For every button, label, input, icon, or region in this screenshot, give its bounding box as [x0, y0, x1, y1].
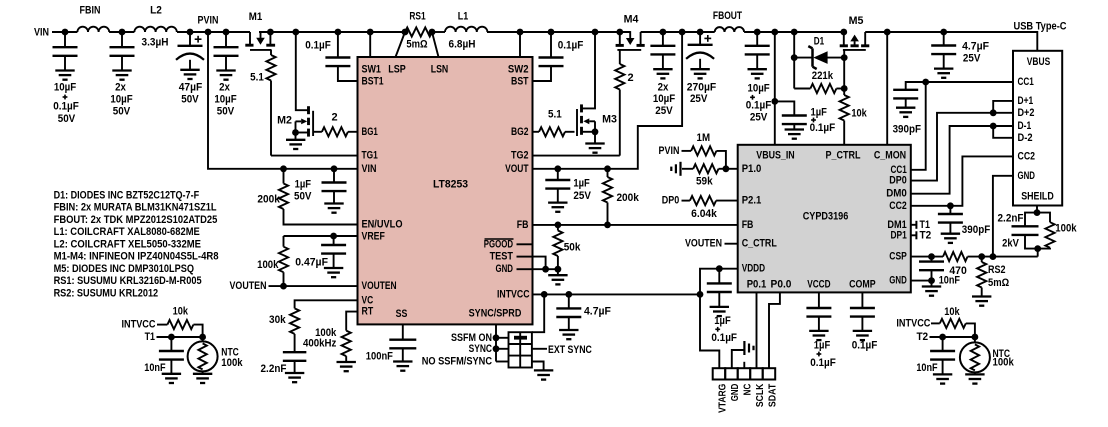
inductor L2 3.3uH — [134, 27, 176, 32]
wire D-2 — [993, 126, 1013, 138]
svg-text:CC2: CC2 — [889, 200, 907, 212]
svg-text:FBOUT: FBOUT — [713, 10, 742, 22]
junction LSN on rail — [429, 29, 436, 36]
junction CC2 390pF — [947, 202, 954, 209]
svg-text:GND: GND — [496, 263, 514, 275]
svg-text:200k: 200k — [616, 192, 639, 204]
ground CYPD GND — [931, 281, 933, 287]
svg-text:T2: T2 — [920, 229, 932, 241]
wire CC2 to USB — [911, 156, 1013, 205]
junction PVIN node — [205, 29, 212, 36]
svg-text:10k: 10k — [173, 306, 189, 318]
resistor 10k P_CTRL — [843, 58, 845, 95]
wire VDDD — [700, 269, 738, 295]
wire TG1 — [271, 155, 358, 157]
svg-text:M5: M5 — [849, 15, 864, 27]
svg-text:D+1: D+1 — [1018, 95, 1034, 107]
resistor RS2 5mOhm — [981, 257, 983, 262]
wire FBOUT to M5 — [744, 31, 844, 33]
transistor M1 — [249, 32, 251, 45]
capacitor 2x10uF 50V (1) — [121, 32, 123, 47]
svg-text:VDDD: VDDD — [742, 263, 765, 275]
capacitor 4.7uF 25V VBUS — [943, 32, 945, 46]
junction 4.7uF on rail — [940, 29, 947, 36]
svg-text:USB Type-C: USB Type-C — [1014, 20, 1067, 32]
junction rail at second 2x10uF — [223, 29, 230, 36]
svg-text:TG1: TG1 — [362, 150, 378, 162]
junction FB 200k — [604, 222, 611, 229]
svg-text:GND: GND — [729, 383, 741, 401]
wire SW2 pin to rail — [519, 32, 521, 57]
junction VREF cap — [330, 233, 337, 240]
ground T1 NTC — [193, 373, 212, 375]
svg-text:10µF: 10µF — [54, 82, 77, 94]
svg-text:10nF: 10nF — [939, 274, 961, 286]
wire FBIN to L2 — [109, 31, 134, 33]
resistor 2 M4 gate — [619, 50, 621, 64]
junction VBUS_IN on rail — [771, 29, 778, 36]
svg-text:VIN: VIN — [362, 163, 377, 175]
svg-text:DP0: DP0 — [662, 195, 680, 207]
resistor 5.1 M1 gate — [270, 50, 272, 55]
svg-text:TG2: TG2 — [511, 150, 529, 162]
node T1 stub — [911, 224, 917, 226]
capacitor 0.47uF VREF — [333, 236, 335, 245]
wire D+1 — [993, 101, 1013, 113]
capacitor 1uF 25V VOUT — [557, 169, 559, 180]
svg-text:10µF: 10µF — [214, 93, 237, 105]
junction rail at 2x10uF — [119, 29, 126, 36]
ferrite bead FBIN — [77, 27, 109, 32]
svg-text:3.3µH: 3.3µH — [142, 37, 169, 49]
svg-text:30k: 30k — [269, 314, 286, 326]
svg-text:10nF: 10nF — [144, 362, 166, 374]
wire M1 source stub to RS1 — [259, 31, 405, 33]
svg-text:EXT SYNC: EXT SYNC — [548, 344, 592, 356]
svg-text:25V: 25V — [750, 112, 768, 124]
resistor 221k — [794, 88, 810, 90]
svg-text:270µF: 270µF — [687, 82, 717, 94]
svg-text:FBIN: 2x MURATA BLM31KN471SZ1L: FBIN: 2x MURATA BLM31KN471SZ1L — [54, 202, 217, 214]
resistor 100k shield — [1037, 213, 1050, 223]
junction D1 cathode — [791, 54, 798, 61]
junction 1uF on VIN line — [331, 165, 338, 172]
capacitor 2.2nF 2kV — [1025, 213, 1037, 227]
wire D-1 to DM0 — [911, 126, 1013, 194]
junction T1 NTC — [199, 334, 206, 341]
svg-text:RS2: SUSUMU KRL2012: RS2: SUSUMU KRL2012 — [54, 287, 159, 299]
svg-text:FB: FB — [517, 219, 529, 231]
svg-text:BG2: BG2 — [511, 126, 529, 138]
svg-text:2: 2 — [628, 72, 634, 84]
junction INTVCC 4.7uF — [565, 291, 572, 298]
svg-text:D-2: D-2 — [1018, 132, 1033, 144]
junction rail at 47uF — [187, 29, 194, 36]
svg-text:D+2: D+2 — [1018, 107, 1035, 119]
svg-text:2x: 2x — [115, 82, 127, 94]
svg-text:M3: M3 — [602, 114, 617, 126]
wire RS1 to L1 — [432, 31, 445, 33]
svg-text:50V: 50V — [294, 190, 312, 202]
svg-text:M2: M2 — [277, 115, 292, 127]
resistor 10k T2 — [940, 319, 966, 328]
wire TEST to GND — [533, 257, 546, 270]
svg-text:4.7µF: 4.7µF — [584, 306, 611, 318]
svg-text:VIN: VIN — [34, 27, 49, 39]
svg-text:PVIN: PVIN — [198, 15, 219, 27]
wire CYPD GND pin — [911, 280, 932, 282]
junction TEST GND — [542, 266, 549, 273]
junction shield network top — [1034, 209, 1041, 216]
svg-text:50V: 50V — [58, 113, 76, 125]
svg-text:5.1: 5.1 — [548, 109, 562, 121]
junction FB 50k — [555, 222, 562, 229]
svg-text:221k: 221k — [812, 70, 834, 82]
junction RS2 top — [978, 253, 985, 260]
transistor M3 — [582, 32, 596, 108]
wire VBUS_IN — [774, 32, 776, 145]
svg-text:100k: 100k — [993, 357, 1015, 369]
wire M4 to FBOUT — [641, 31, 715, 33]
svg-text:1M: 1M — [697, 132, 711, 144]
svg-text:P0.0: P0.0 — [771, 278, 792, 290]
wire PVIN to VIN pin — [208, 32, 358, 169]
svg-text:M5: DIODES INC DMP3010LPSQ: M5: DIODES INC DMP3010LPSQ — [54, 263, 195, 275]
thermistor NTC T2 — [974, 337, 976, 342]
jumper block JP1 — [509, 332, 532, 367]
svg-text:50V: 50V — [181, 93, 199, 105]
capacitor 10uF+0.1uF 50V input — [64, 32, 66, 47]
capacitor 0.1uF BST2 — [550, 32, 552, 58]
svg-text:SYNC: SYNC — [469, 343, 492, 355]
svg-text:M1-M4: INFINEON IPZ40N04S5L-4R: M1-M4: INFINEON IPZ40N04S5L-4R8 — [54, 251, 219, 263]
svg-text:P_CTRL: P_CTRL — [825, 150, 860, 162]
junction D1 anode — [841, 54, 848, 61]
wire network to CSP line — [1037, 249, 1039, 257]
junction GND 10nF — [928, 277, 935, 284]
svg-text:FBOUT: 2x TDK MPZ2012S102ATD25: FBOUT: 2x TDK MPZ2012S102ATD25 — [54, 214, 218, 226]
junction M2 source — [292, 129, 299, 136]
svg-text:5.1: 5.1 — [250, 72, 264, 84]
transistor M5 — [843, 33, 845, 46]
junction SW1 on rail — [367, 29, 374, 36]
svg-text:0.1µF: 0.1µF — [810, 357, 836, 369]
wire SW1 pin to rail — [369, 32, 371, 57]
capacitor 10nF T2 — [942, 337, 944, 351]
svg-text:5mΩ: 5mΩ — [406, 38, 427, 50]
junction VOUTEN divider — [280, 283, 287, 290]
ground T2 cap — [933, 373, 952, 375]
svg-text:LSP: LSP — [388, 64, 406, 76]
capacitor 100nF SS — [402, 324, 404, 339]
wire VIN to FBIN — [52, 31, 77, 33]
svg-text:C_MON: C_MON — [874, 150, 906, 162]
svg-text:2x: 2x — [219, 82, 231, 94]
junction T1 cap — [168, 334, 175, 341]
capacitor 0.1uF BST1 — [337, 32, 339, 58]
svg-text:VCCD: VCCD — [807, 278, 830, 290]
wire INTVCC to jumper — [532, 294, 544, 332]
junction VOUT 200k — [604, 165, 611, 172]
svg-text:50k: 50k — [564, 242, 581, 254]
svg-text:10µF: 10µF — [110, 93, 133, 105]
svg-text:400kHz: 400kHz — [303, 337, 337, 349]
junction VOUT 1uF — [554, 165, 561, 172]
svg-text:VOUTEN: VOUTEN — [685, 238, 722, 250]
wire L2 to M1 — [177, 31, 250, 33]
svg-text:VREF: VREF — [362, 231, 386, 243]
wire LSN pin — [432, 32, 439, 57]
svg-text:LSN: LSN — [431, 64, 449, 76]
svg-text:25V: 25V — [690, 93, 708, 105]
wire CC1 to USB — [906, 82, 1013, 90]
junction BST1 cap on rail — [335, 29, 342, 36]
svg-text:4.7µF: 4.7µF — [962, 41, 989, 53]
junction M5 on rail — [840, 29, 847, 36]
svg-text:1µF: 1µF — [714, 315, 731, 327]
junction shield network bottom — [1034, 245, 1041, 252]
svg-text:VBUS: VBUS — [1027, 56, 1050, 68]
junction 200k on VIN line — [280, 165, 287, 172]
junction M3 source — [592, 128, 599, 135]
svg-text:M4: M4 — [624, 14, 640, 26]
svg-text:DM0: DM0 — [886, 188, 907, 200]
junction INTVCC VDDD — [697, 291, 704, 298]
svg-text:25V: 25V — [655, 105, 673, 117]
svg-text:EN/UVLO: EN/UVLO — [362, 219, 403, 231]
resistor RS1 5mOhm — [405, 27, 432, 36]
capacitor 1uF+0.1uF VCCD — [818, 292, 820, 308]
svg-text:25V: 25V — [573, 190, 591, 202]
wire D+2 to DP0 — [911, 113, 1013, 181]
capacitor 2x10uF 25V output — [662, 32, 664, 46]
wire CC1 to CYPD3196 — [911, 82, 926, 170]
capacitor 10nF CSP — [931, 257, 933, 262]
junction SW2 on rail — [517, 29, 524, 36]
svg-text:BG1: BG1 — [362, 126, 378, 138]
op-amp U1 LT8253 body — [358, 57, 533, 324]
resistor 30k VC — [295, 300, 358, 308]
svg-text:100k: 100k — [221, 357, 243, 369]
svg-text:100nF: 100nF — [366, 351, 393, 363]
svg-text:390pF: 390pF — [962, 224, 991, 236]
wire CSP — [911, 256, 943, 258]
capacitor 10nF T1 — [170, 337, 172, 351]
svg-text:2.2nF: 2.2nF — [261, 363, 287, 375]
junction D- short — [990, 123, 997, 130]
svg-text:0.1µF: 0.1µF — [53, 101, 79, 113]
svg-text:FB: FB — [742, 219, 754, 231]
wire header GND to rotated ground — [732, 350, 745, 368]
ferrite bead FBOUT — [715, 27, 744, 32]
node EXT SYNC — [532, 348, 547, 350]
svg-text:INTVCC: INTVCC — [497, 288, 530, 300]
svg-text:VOUT: VOUT — [505, 163, 529, 175]
resistor 2 BG1 gate — [313, 131, 322, 133]
svg-text:RS1: RS1 — [409, 11, 425, 23]
capacitor 1uF 50V VIN — [333, 169, 335, 183]
svg-text:2.2nF: 2.2nF — [998, 213, 1024, 225]
svg-text:6.8µH: 6.8µH — [449, 38, 476, 50]
capacitor 2x10uF 50V (2) — [225, 32, 227, 47]
svg-text:DP0: DP0 — [889, 175, 907, 187]
junction CSP 10nF — [928, 253, 935, 260]
junction LSP on rail — [402, 29, 409, 36]
junction BST2 cap on rail — [548, 29, 555, 36]
capacitor 10uF+0.1uF 25V output — [756, 32, 758, 46]
svg-text:1µF: 1µF — [573, 177, 590, 189]
junction M2 drain on rail — [292, 29, 299, 36]
svg-text:RT: RT — [362, 306, 374, 318]
wire L1 to M4 — [487, 31, 630, 33]
wire D1 branch from rail — [793, 32, 795, 89]
wire 470 to RS2 — [968, 256, 993, 258]
svg-text:1µF: 1µF — [811, 107, 828, 119]
junction M3 drain on rail — [592, 29, 599, 36]
svg-text:0.1µF: 0.1µF — [558, 39, 584, 51]
svg-text:0.1µF: 0.1µF — [810, 122, 836, 134]
svg-text:1µF: 1µF — [814, 340, 831, 352]
junction D1 branch on rail — [791, 29, 798, 36]
svg-text:SW2: SW2 — [508, 64, 529, 76]
svg-text:0.1µF: 0.1µF — [852, 340, 878, 352]
svg-text:50V: 50V — [217, 106, 235, 118]
svg-text:P2.1: P2.1 — [742, 195, 762, 207]
svg-text:P0.1: P0.1 — [747, 278, 767, 290]
svg-text:1µF: 1µF — [295, 178, 312, 190]
wire SYNC/SPRD pin — [495, 324, 497, 361]
diode D1 zener — [794, 57, 813, 59]
junction VOUT riser on rail — [679, 29, 686, 36]
ground T1 cap — [162, 373, 181, 375]
ground RS2 — [972, 295, 991, 297]
ground jumper — [532, 362, 544, 371]
svg-text:L1: L1 — [458, 11, 468, 23]
wire NC stub — [743, 362, 745, 368]
svg-text:NO SSFM/SYNC: NO SSFM/SYNC — [422, 356, 492, 368]
svg-text:NC: NC — [742, 383, 754, 395]
svg-text:P1.0: P1.0 — [742, 163, 762, 175]
junction M4 on rail — [616, 29, 623, 36]
svg-text:CC2: CC2 — [1018, 150, 1036, 162]
resistor 100k VOUTEN divider — [283, 236, 285, 247]
resistor 6.04k — [690, 196, 716, 205]
wire SCLK to P0.1 — [756, 292, 758, 368]
resistor 1M — [691, 146, 716, 155]
svg-text:D1: D1 — [814, 36, 824, 48]
junction T2 cap — [939, 334, 946, 341]
svg-text:100k: 100k — [257, 259, 279, 271]
junction 221k right — [841, 85, 848, 92]
svg-text:D1: DIODES INC BZT52C12TQ-7-F: D1: DIODES INC BZT52C12TQ-7-F — [54, 189, 200, 201]
svg-text:GND: GND — [889, 275, 907, 287]
svg-text:VTARG: VTARG — [717, 384, 729, 413]
svg-text:D-1: D-1 — [1018, 120, 1032, 132]
capacitor 1uF+0.1uF VDDD — [718, 269, 720, 284]
wire INTVCC — [533, 293, 701, 295]
svg-text:390pF: 390pF — [893, 124, 922, 136]
wire P1.0 — [726, 168, 738, 170]
svg-text:DP1: DP1 — [891, 229, 907, 241]
resistor 59k — [682, 168, 693, 170]
svg-text:BST1: BST1 — [362, 76, 384, 88]
svg-text:INTVCC: INTVCC — [122, 319, 156, 331]
svg-text:2: 2 — [331, 112, 337, 124]
svg-text:SCLK: SCLK — [754, 383, 766, 407]
ground header rotated — [743, 341, 745, 355]
svg-text:47µF: 47µF — [179, 82, 203, 94]
svg-text:BST: BST — [511, 76, 529, 88]
capacitor 270uF 25V polarized — [699, 32, 701, 45]
wire C_MON from rail — [886, 32, 888, 145]
svg-text:0.1µF: 0.1µF — [711, 332, 737, 344]
junction D+ short — [990, 109, 997, 116]
junction VBUS_IN cap tap — [771, 98, 778, 105]
svg-text:VOUTEN: VOUTEN — [362, 280, 397, 292]
svg-text:59k: 59k — [696, 175, 713, 187]
resistor 50k FB — [557, 225, 559, 231]
capacitor 390pF CC1 — [893, 89, 918, 91]
capacitor 2.2nF VC — [283, 351, 307, 353]
svg-text:10nF: 10nF — [916, 362, 938, 374]
svg-text:200k: 200k — [257, 193, 280, 205]
svg-text:CC1: CC1 — [1018, 76, 1034, 88]
wire VOUT to rail — [533, 32, 683, 169]
junction rail 2x10uF out — [660, 29, 667, 36]
svg-text:RS2: RS2 — [988, 264, 1006, 276]
svg-text:GND: GND — [1018, 170, 1036, 182]
resistor 200k EN/UVLO — [283, 169, 285, 184]
svg-text:L2: L2 — [150, 5, 162, 17]
svg-text:2x: 2x — [658, 82, 670, 94]
svg-text:M1: M1 — [249, 11, 263, 23]
svg-text:SDAT: SDAT — [767, 383, 779, 407]
svg-text:0.47µF: 0.47µF — [295, 257, 328, 269]
inductor L1 6.8uH — [445, 27, 487, 32]
junction VDDD cap — [716, 265, 723, 272]
junction M1 drain on rail — [267, 29, 274, 36]
wire LSP pin — [396, 32, 406, 57]
ground M2 source — [295, 133, 297, 140]
capacitor 390pF CC2 — [949, 206, 951, 214]
junction rail 10uF out — [754, 29, 761, 36]
capacitor 47uF 50V polarized — [189, 32, 191, 46]
svg-text:PVIN: PVIN — [659, 145, 680, 157]
svg-text:LT8253: LT8253 — [433, 179, 468, 191]
capacitor 0.1uF COMP — [861, 292, 863, 308]
junction VIN rail — [62, 29, 69, 36]
wire VTARG — [700, 294, 719, 368]
svg-text:CYPD3196: CYPD3196 — [803, 211, 849, 223]
resistor 5.1 BG2 gate — [533, 131, 540, 133]
svg-text:CSP: CSP — [889, 251, 907, 263]
svg-text:L2: COILCRAFT XEL5050-332ME: L2: COILCRAFT XEL5050-332ME — [54, 238, 201, 250]
ground 59k rotated — [679, 162, 681, 176]
transistor M4 — [619, 32, 621, 45]
ground M3 source — [594, 132, 596, 144]
wire SDAT to P0.0 — [769, 292, 780, 368]
junction rail 270uF — [697, 29, 704, 36]
svg-text:TEST: TEST — [490, 251, 514, 263]
junction GND on CSP line — [990, 253, 997, 260]
svg-text:SW1: SW1 — [362, 64, 381, 76]
thermistor NTC T1 — [202, 337, 204, 342]
svg-text:PGOOD: PGOOD — [484, 238, 513, 250]
connector USB Type-C body — [1013, 51, 1062, 206]
resistor 200k FB top — [607, 169, 609, 177]
svg-text:10k: 10k — [851, 108, 867, 120]
wire SHIELD stub — [1036, 206, 1038, 213]
